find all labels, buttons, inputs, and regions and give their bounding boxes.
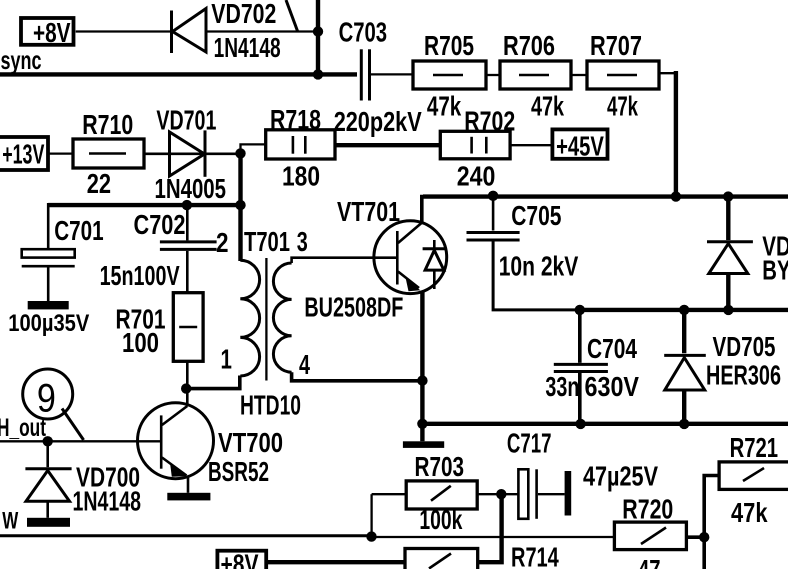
svg-text:33n: 33n xyxy=(545,371,579,402)
svg-text:47k: 47k xyxy=(531,91,564,122)
wire T701 pin2 vertical xyxy=(238,205,242,261)
wire R718 to R702 xyxy=(335,143,440,147)
svg-text:22: 22 xyxy=(87,168,111,199)
node top bus / R707 xyxy=(671,191,681,201)
svg-text:47k: 47k xyxy=(731,497,768,528)
svg-text:BSR52: BSR52 xyxy=(208,456,269,487)
resistor R710 xyxy=(73,139,144,168)
svg-text:1N4148: 1N4148 xyxy=(214,32,281,63)
ground bus3 xyxy=(403,441,444,448)
svg-text:2: 2 xyxy=(216,227,229,258)
svg-text:47k: 47k xyxy=(607,91,638,122)
svg-text:47k: 47k xyxy=(427,91,462,122)
svg-text:+45V: +45V xyxy=(556,130,604,161)
node bottom bus junction xyxy=(366,531,376,541)
svg-text:100: 100 xyxy=(122,327,159,358)
ground VD700 xyxy=(27,518,70,527)
svg-text:R720: R720 xyxy=(622,493,673,524)
wire R707 to corner xyxy=(659,72,676,74)
svg-text:H_out: H_out xyxy=(0,414,46,442)
wire H_out to VT700 base xyxy=(0,440,161,442)
wire C702 to R701 xyxy=(186,251,189,293)
capacitor C701 (electrolytic) xyxy=(22,249,75,266)
ground C701 xyxy=(28,301,69,309)
svg-text:C701: C701 xyxy=(54,215,103,246)
wire VT701 collector to top bus xyxy=(422,197,788,223)
wire riser to R703 xyxy=(370,494,372,537)
capacitor C703 xyxy=(361,49,369,100)
transistor VT700 xyxy=(138,403,214,479)
svg-text:240: 240 xyxy=(457,161,496,192)
node bus3 / VD705 xyxy=(679,419,689,429)
svg-text:100k: 100k xyxy=(419,504,462,535)
wire jog up to R718 xyxy=(241,144,266,153)
power rail +13V xyxy=(0,137,48,170)
wire R720 right to node xyxy=(686,535,704,539)
wire sync bus xyxy=(0,72,357,76)
svg-text:HTD10: HTD10 xyxy=(240,389,301,420)
wire R701 to node xyxy=(186,361,189,388)
wire mid bus xyxy=(579,308,788,312)
wire C703 to R705 xyxy=(371,73,413,75)
wire diagonal from top edge xyxy=(286,0,298,31)
power rail +8V (bottom) xyxy=(217,549,266,569)
capacitor C702 xyxy=(160,242,217,250)
wire R706 to R707 xyxy=(571,74,587,76)
wire VT700 collector xyxy=(186,389,189,406)
svg-text:3: 3 xyxy=(297,226,308,257)
wire C705 from top bus xyxy=(492,196,495,231)
wire R710 to VD701 xyxy=(144,153,241,156)
resistor R705 xyxy=(413,61,486,89)
svg-text:VT700: VT700 xyxy=(218,427,283,458)
damper diode (in VT701) xyxy=(423,240,446,289)
wire bus3 xyxy=(422,422,788,426)
svg-text:sync: sync xyxy=(1,45,42,75)
svg-text:R706: R706 xyxy=(503,30,555,61)
svg-text:VD705: VD705 xyxy=(713,331,776,362)
wire bus2 down to C701 xyxy=(47,203,50,249)
wire long horizontal to R720 xyxy=(372,536,615,538)
svg-text:R702: R702 xyxy=(464,106,515,137)
wire riser C717 node to R714 xyxy=(478,494,502,562)
svg-text:4: 4 xyxy=(299,349,310,380)
node VD702/sync junction xyxy=(313,26,323,36)
svg-text:VD701: VD701 xyxy=(156,105,216,136)
svg-text:C702: C702 xyxy=(134,209,186,240)
diode VD704 xyxy=(707,242,753,274)
svg-text:R721: R721 xyxy=(730,432,779,463)
transformer T701 primary winding xyxy=(240,260,259,376)
node H_out junction xyxy=(43,436,53,446)
power rail +8V (top left) xyxy=(21,17,74,48)
wire +13V to R710 xyxy=(48,152,73,154)
resistor R706 xyxy=(500,61,571,89)
svg-text:VD702: VD702 xyxy=(211,0,276,29)
svg-text:10n 2kV: 10n 2kV xyxy=(499,250,579,281)
transistor VT701 xyxy=(374,221,447,294)
wire VD705 from mid bus xyxy=(682,310,686,353)
wire R705 to R706 xyxy=(486,74,500,76)
connector pin 9 xyxy=(23,369,73,421)
wire +8V to VD702 xyxy=(76,30,170,32)
svg-text:1: 1 xyxy=(221,344,232,375)
svg-text:180: 180 xyxy=(282,160,320,191)
wire C704 from mid bus xyxy=(578,310,582,363)
wire VD704 to mid bus xyxy=(726,274,730,310)
wire vertical node x318 xyxy=(316,0,320,74)
node R720/R721 junction xyxy=(699,532,709,542)
node sync bus junction xyxy=(313,69,323,79)
svg-text:R703: R703 xyxy=(415,451,465,482)
wire bottom bus left xyxy=(0,534,372,537)
diode VD702 xyxy=(172,9,207,54)
svg-text:47µ25V: 47µ25V xyxy=(583,461,658,492)
svg-text:HER306: HER306 xyxy=(706,359,781,390)
svg-text:BY228: BY228 xyxy=(762,254,788,285)
diode VD705 xyxy=(664,355,706,390)
svg-text:47: 47 xyxy=(638,554,661,569)
wire C704 to bus3 xyxy=(578,373,582,424)
svg-text:R710: R710 xyxy=(82,109,133,140)
capacitor C717 (electrolytic) xyxy=(518,469,571,519)
svg-text:100µ35V: 100µ35V xyxy=(8,310,89,337)
wire C702 from bus2 xyxy=(186,205,189,240)
wire R721 corner xyxy=(704,476,719,569)
capacitor C704 xyxy=(554,364,608,371)
svg-text:15n100V: 15n100V xyxy=(100,260,180,291)
wire R703 left xyxy=(372,493,407,495)
svg-text:C704: C704 xyxy=(587,333,637,364)
wire bus2 horizontal xyxy=(48,203,240,207)
power rail +45V xyxy=(552,129,607,161)
wire VD700 from node xyxy=(46,441,49,467)
svg-text:R707: R707 xyxy=(590,30,642,61)
node top bus / C705 xyxy=(488,191,498,201)
node mid bus / VD705 xyxy=(679,305,689,315)
svg-text:T701: T701 xyxy=(244,226,290,257)
resistor R701 xyxy=(173,293,203,362)
svg-text:1N4005: 1N4005 xyxy=(155,173,227,204)
wire +8V to R714 xyxy=(266,560,405,564)
diode VD701 xyxy=(170,130,206,176)
svg-text:VT701: VT701 xyxy=(337,196,400,227)
svg-text:R714: R714 xyxy=(511,541,559,569)
svg-text:630V: 630V xyxy=(585,371,640,402)
node mid bus / C704 xyxy=(575,305,585,315)
wire T701 pin1 xyxy=(186,376,240,389)
wire top bus stroke (thick) xyxy=(423,194,788,198)
node bus2/T701 junction xyxy=(235,200,245,210)
node VD701 junction xyxy=(235,148,245,158)
node emitter/bus3 junction xyxy=(417,419,427,429)
wire R703 right to node xyxy=(477,493,518,495)
resistor R707 xyxy=(587,61,659,89)
transformer T701 core xyxy=(265,258,267,381)
wire VD702 to node xyxy=(206,30,318,32)
wire VD700 to ground xyxy=(46,501,49,518)
capacitor C705 xyxy=(467,233,520,241)
wire VT700 emitter xyxy=(187,477,190,493)
svg-text:+8V: +8V xyxy=(221,549,259,569)
svg-text:BU2508DF: BU2508DF xyxy=(304,292,403,323)
node bus3 / C704 xyxy=(575,419,585,429)
ground VT700 xyxy=(167,493,210,501)
resistor R702 xyxy=(440,131,510,159)
svg-text:+13V: +13V xyxy=(2,139,44,170)
wire VT701 emitter vertical xyxy=(420,291,424,441)
wire C701 to ground xyxy=(47,267,50,301)
node mid bus / VD704 xyxy=(723,305,733,315)
node bus2/C702 junction xyxy=(182,200,192,210)
resistor R721 xyxy=(719,462,788,490)
wire VD705 to bus3 xyxy=(682,390,686,424)
wire C705 down and right to mid bus xyxy=(493,242,580,310)
node pin4/emitter junction xyxy=(417,375,427,385)
svg-text:C705: C705 xyxy=(511,200,561,231)
resistor R720 xyxy=(614,522,686,550)
wire pin9 diagonal xyxy=(62,409,84,441)
svg-text:R705: R705 xyxy=(424,30,474,61)
resistor R703 xyxy=(406,481,477,509)
wire VD704 from top bus xyxy=(726,197,730,241)
node R703/C717 junction xyxy=(496,489,506,499)
transformer T701 secondary winding xyxy=(273,263,291,372)
resistor R718 xyxy=(266,130,335,159)
svg-text:C703: C703 xyxy=(339,16,388,47)
svg-text:220p2kV: 220p2kV xyxy=(334,106,422,137)
svg-text:R718: R718 xyxy=(270,104,321,135)
svg-text:1N4148: 1N4148 xyxy=(73,486,142,517)
node R701/T701/VT700 junction xyxy=(181,383,191,393)
svg-text:C717: C717 xyxy=(507,428,552,459)
wire T701 pin4 xyxy=(292,372,423,381)
svg-text:W: W xyxy=(2,508,18,535)
resistor R714 xyxy=(405,549,478,569)
diode VD700 xyxy=(25,469,71,501)
wire vertical R707 down to top bus xyxy=(674,71,678,197)
node top bus / VD704 xyxy=(723,191,733,201)
wire R702 to +45V xyxy=(510,144,552,146)
wire T701 pin3 xyxy=(292,258,398,263)
svg-text:+8V: +8V xyxy=(33,17,71,48)
wire vertical VD701 node down to bus2 xyxy=(238,153,242,205)
